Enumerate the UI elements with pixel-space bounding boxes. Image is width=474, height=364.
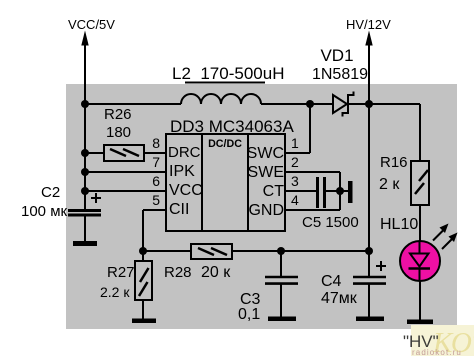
svg-text:7: 7 [152,154,160,170]
junction [81,168,89,176]
label R26 180 [104,106,132,141]
junction [81,149,89,157]
capacitor C4 [353,261,386,284]
pin 8 [144,135,166,153]
pin 5 [143,192,166,210]
ic DD3 MC34063A [166,134,285,231]
label R16 2 к [379,154,408,193]
svg-text:R27: R27 [107,264,135,281]
wire pin5 down [142,210,144,251]
wire R26 left [85,152,104,154]
svg-text:5: 5 [152,192,160,208]
svg-text:180: 180 [106,124,131,141]
label R27 2.2 к [100,264,135,300]
wire R27 bottom [142,300,144,321]
wire C3 bottom [280,285,282,320]
wire to inductor [85,103,181,105]
svg-text:4: 4 [291,192,299,208]
svg-text:"HV": "HV" [403,332,439,351]
label R28 20 к [164,264,231,281]
svg-text:2.2 к: 2.2 к [100,284,130,300]
svg-text:HL10: HL10 [380,216,418,233]
wire R27 top [142,251,144,261]
capacitor C2 [68,193,101,215]
svg-text:VCC/5V: VCC/5V [68,17,115,32]
ground (C4) [356,317,384,322]
junction [139,247,147,255]
svg-text:3: 3 [291,173,299,189]
label C2 100 мк [21,184,68,220]
svg-text:DD3 MC34063A: DD3 MC34063A [170,117,294,136]
svg-text:1N5819: 1N5819 [312,66,368,83]
label C4 47мк [321,273,358,307]
wire diode to corner [348,103,420,105]
wire pin2 to pin4 [339,172,341,210]
ground (HL10) [407,320,433,325]
wire HV rail down [368,104,370,251]
svg-text:CII: CII [169,201,189,218]
pin 1 [285,104,310,153]
svg-text:R16: R16 [380,154,408,171]
svg-text:DRC: DRC [168,144,201,161]
junction [365,247,373,255]
svg-text:C5 1500: C5 1500 [302,214,359,231]
capacitor C3 [265,277,298,284]
wire C2 down [84,216,86,243]
svg-text:C2: C2 [41,184,60,201]
watermark radiokot.ru [411,325,474,359]
label C3 0,1 [238,291,261,323]
svg-text:GND: GND [248,202,284,219]
svg-text:C4: C4 [321,273,342,290]
svg-text:HV/12V: HV/12V [346,17,391,32]
diode VD1 [333,92,354,117]
pin 7 [85,154,166,172]
resistor R26 [104,145,144,161]
junction [365,100,373,108]
wire LED down [419,280,421,321]
power VCC arrow [81,31,88,105]
resistor R27 [135,261,152,300]
pin 2 [285,154,340,172]
wire inductor to diode [261,103,333,105]
power HV arrow [365,31,372,105]
label VD1 1N5819 [312,46,368,83]
ground (C3) [268,317,296,322]
wire R16 to LED [419,205,421,243]
resistor R28 [191,244,232,259]
wire VCC rail [84,104,86,210]
wire bottom rail right [232,250,369,252]
svg-text:47мк: 47мк [321,290,358,307]
svg-text:R28: R28 [164,264,192,281]
junction [306,100,314,108]
capacitor C5 [318,177,325,208]
svg-text:20 к: 20 к [201,264,231,281]
junction [277,247,285,255]
wire C5 to junction [326,190,348,192]
ground (C2) [73,241,97,246]
resistor R16 [411,161,429,205]
svg-text:2 к: 2 к [379,176,400,193]
ground (R27) [132,319,156,324]
pin 4 [285,192,340,210]
svg-text:100 мк: 100 мк [21,203,68,220]
junction [336,187,344,195]
label L2 170-500uH [172,64,284,83]
ground (C5) [348,181,353,203]
wire to R16 [419,104,421,161]
junction [81,187,89,195]
svg-text:R26: R26 [104,106,132,123]
wire bottom rail left [143,250,191,252]
led HL10 [400,224,458,282]
wire C4 top [368,251,370,276]
svg-text:1: 1 [291,135,299,151]
pin 6 [85,173,166,191]
svg-text:VCC: VCC [169,182,203,199]
svg-text:SWC: SWC [247,145,284,162]
svg-text:L2 170-500uH: L2 170-500uH [172,64,284,83]
svg-text:8: 8 [152,135,160,151]
svg-text:DC/DC: DC/DC [208,138,242,150]
junction [81,100,89,108]
wire C3 top [280,251,282,276]
inductor L2 [181,94,261,104]
svg-text:CT: CT [263,183,285,200]
svg-text:SWE: SWE [248,164,284,181]
svg-text:IPK: IPK [169,163,195,180]
svg-text:2: 2 [291,154,299,170]
svg-text:6: 6 [152,173,160,189]
svg-text:VD1: VD1 [320,46,353,65]
pin 3 [285,173,317,191]
wire C4 bottom [368,285,370,320]
svg-text:0,1: 0,1 [238,306,260,323]
